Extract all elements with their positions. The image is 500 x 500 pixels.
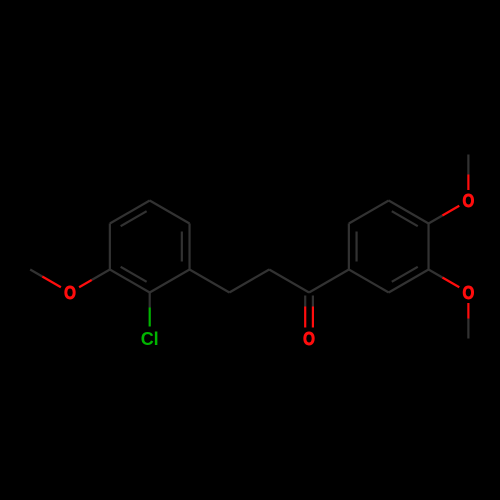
bond O-CH3 (top-right methoxy) [467,155,469,191]
atom label O (bottom-right methoxy) [462,283,474,303]
bond C3-O (bottom-right methoxy) [429,270,460,288]
svg-text:O: O [462,283,474,303]
bond C4-O (top-right methoxy) [429,206,460,224]
ring1 edge RT-top [150,201,190,224]
bond O-C4 (left methoxy to ring 1) [79,270,110,288]
svg-text:O: O [462,191,474,211]
ring1 edge top-LT [110,201,150,227]
atom label O (carbonyl) [303,329,315,349]
ring2 edge LB-bottom [349,270,389,293]
svg-text:O: O [64,283,76,303]
atom label O (left methoxy) [64,283,76,303]
ring2 edge bottom-RB [389,267,429,293]
ring1 edge bottom-RB [150,270,190,293]
bond CH3-O (left methoxy) [30,270,61,288]
ring2 edge RT-top [389,201,429,227]
svg-text:O: O [303,329,315,349]
atom label Cl [141,329,159,349]
ring2 edge top-LT [349,201,389,224]
chain bond ring1-CH2 [190,270,230,293]
chain bond CH2-C(=O) [269,270,309,293]
chain bond CH2-CH2 [229,270,269,293]
ring1 edge RB-RT [182,224,190,270]
bond C3-Cl [149,293,151,327]
ring1 edge LT-LB [109,224,111,270]
bond C=O carbonyl double [305,296,313,328]
ring2 edge RB-RT [427,224,429,270]
ring2 edge LT-LB [349,224,357,270]
bond O-CH3 (bottom-right methoxy) [467,303,469,339]
bond C(=O)-ring2 [309,270,349,293]
ring1 edge LB-bottom [110,267,150,293]
atom label O (top-right methoxy) [462,191,474,211]
svg-text:Cl: Cl [141,329,159,349]
